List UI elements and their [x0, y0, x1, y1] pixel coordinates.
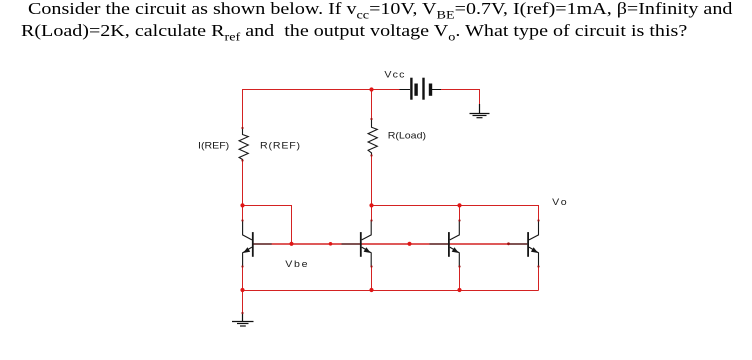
svg-text:I(REF): I(REF) — [198, 141, 229, 151]
svg-text:Vo: Vo — [552, 198, 569, 208]
svg-text:R(REF): R(REF) — [260, 141, 301, 151]
svg-text:R(Load): R(Load) — [388, 131, 426, 141]
svg-text:Vbe: Vbe — [285, 260, 309, 270]
svg-text:Vcc: Vcc — [384, 70, 405, 80]
